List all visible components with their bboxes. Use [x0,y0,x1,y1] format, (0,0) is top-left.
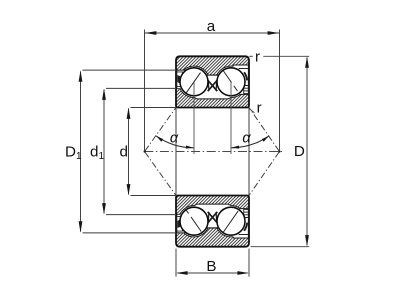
node left ball radial reference line [193,82,195,154]
lower counterbore shoulder line [239,234,249,236]
label r (outer ring corner radius) [249,55,253,57]
dimension D1 line [80,72,82,232]
dimension d1 line [103,90,105,214]
upper cage clip (right) [244,72,247,80]
svg-text:r: r [257,99,262,116]
node pressure cone line right-down [249,152,279,196]
lower outer-ring center rib bottom line [206,227,218,229]
svg-text:α: α [170,131,179,147]
upper left-ball contact line [186,73,200,93]
svg-text:r: r [255,48,260,65]
lower cage end (right, banded) [244,209,249,217]
lower section ring body (hatched) [176,196,249,247]
upper cage pocket (left) [177,72,183,87]
node pressure-center apex left [144,150,146,152]
lower cage segment (left, hatched) [177,219,180,228]
svg-text:D: D [294,143,305,160]
upper left ball [180,68,208,96]
dimension a line [145,32,279,34]
dimension D1 extension bottom [83,232,177,234]
lower right-ball contact line [223,211,238,232]
node pressure cone line left-up [145,108,176,152]
lower left ball [180,207,208,235]
lower cage clip (right) [244,223,247,231]
lower left-ball contact line [186,210,188,213]
angle alpha arc left [156,136,193,148]
upper section ring body (hatched) [176,56,249,107]
svg-text:a: a [207,18,216,35]
dimension a extension right [279,30,281,151]
upper outer-ring center rib bottom line [206,74,218,76]
dimension B extension right [248,249,250,277]
lower section raceway channel [177,204,249,238]
dimension D1 extension top [83,69,177,71]
upper right ball [217,68,245,96]
upper cage end (right, banded) [244,86,249,94]
wire bore edge right (connects sections) [248,108,250,196]
lower cage pocket (left) [177,216,183,231]
dimension D extension top (also r leader) [263,55,309,57]
angle alpha arc right [232,136,269,148]
dimension d1 extension bottom [106,214,176,216]
upper section raceway channel [177,65,249,99]
upper cage prongs (center) [207,80,217,92]
svg-text:d: d [120,143,128,160]
lower right ball [217,207,245,235]
dimension a extension left [144,30,146,151]
dimension D line [306,58,308,246]
lower cage prongs (center) [207,212,217,224]
node pressure cone line left-down [145,152,176,196]
dimension d extension top [131,107,177,109]
svg-text:α: α [242,131,251,147]
node central axis (dash-dot) [144,151,282,153]
node right ball radial reference line [230,82,232,154]
dimension d line [128,109,130,195]
upper cage segment (left, hatched) [177,75,180,84]
dimension d extension bottom [131,195,177,197]
wire bore edge left (connects sections) [175,108,177,196]
dimension B line [177,272,247,274]
node pressure-center apex right [278,150,280,152]
svg-text:B: B [206,258,216,275]
dimension B extension left [175,249,177,277]
upper right-ball contact line [223,71,231,83]
label r (inner ring corner radius) [250,109,254,112]
dimension D extension bottom [251,246,310,248]
node pressure cone line right-up [249,108,279,152]
upper counterbore shoulder line [239,68,249,70]
dimension d1 extension top [106,87,176,89]
